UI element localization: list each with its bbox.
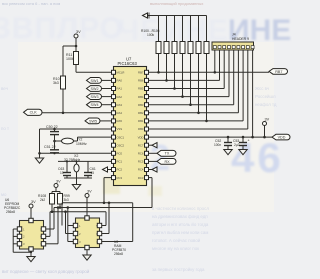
svg-text:по т: по т — [1, 126, 9, 131]
pin 24 right — [145, 103, 149, 107]
svg-text:3k3: 3k3 — [64, 198, 69, 202]
node R105 row6 — [197, 112, 200, 115]
svg-text:3V: 3V — [87, 189, 92, 193]
wire header pin7 to row7 — [242, 50, 244, 121]
svg-text:ЗВПЛРО: ЗВПЛРО — [0, 12, 124, 45]
svg-text:MCLR: MCLR — [117, 71, 125, 75]
svg-text:PIC16C63: PIC16C63 — [118, 61, 138, 66]
pin 16 right — [145, 168, 149, 172]
resistor R99 3k3 — [58, 194, 63, 205]
wire row14 right loop — [149, 177, 153, 179]
svg-text:15: 15 — [91, 171, 95, 175]
tag RB7 right — [269, 69, 288, 75]
header pin 6 — [237, 46, 240, 49]
svg-text:100k: 100k — [66, 57, 74, 61]
pin 4 left — [112, 95, 116, 99]
U6 bottom pin 4 — [29, 247, 33, 251]
supply 3V left — [74, 34, 78, 38]
wire row2 right — [149, 79, 220, 81]
header pin 5 — [232, 46, 235, 49]
IC U7 PIC16C63 body — [114, 67, 147, 186]
wire R104 to row5 — [190, 54, 192, 105]
bus wire a — [62, 202, 133, 204]
svg-text:VSS: VSS — [117, 127, 123, 131]
pin 1 left — [112, 70, 116, 74]
svg-text:RB1: RB1 — [138, 119, 144, 123]
node X2 top — [75, 160, 77, 162]
connector tag CLOCK (far left) — [24, 109, 43, 115]
IC U6 EEPROM PCF8582C body — [20, 221, 44, 250]
svg-text:OSC2: OSC2 — [117, 143, 125, 147]
svg-text:Россейшл: Россейшл — [255, 94, 276, 99]
wire 3V to U8 — [86, 198, 88, 216]
wire row7 right — [149, 120, 244, 122]
pin 13 left — [112, 168, 116, 172]
U6 top pin 8 — [29, 218, 33, 222]
wire row3 right — [149, 88, 225, 90]
wire R11 to MCLR pin 1 — [75, 65, 77, 73]
wire U6 pin to bus — [50, 243, 59, 245]
tag row12 right — [149, 160, 158, 162]
svg-text:вск ревесом сота 6 - нап. а п: вск ревесом сота 6 - нап. а пом — [2, 1, 60, 6]
svg-text:C50 22: C50 22 — [46, 125, 58, 129]
pin 17 right — [145, 159, 149, 163]
header pin 4 — [228, 46, 231, 49]
tag VDD right — [272, 134, 290, 140]
ground osc — [72, 185, 80, 190]
wire U6 right pin stubs — [46, 228, 50, 230]
svg-text:RB7: RB7 — [275, 70, 282, 74]
node U6 gnd — [30, 251, 32, 253]
svg-text:на древнисловах фонд едп: на древнисловах фонд едп — [152, 214, 208, 219]
wire U6 address pins to ground bar — [13, 228, 17, 230]
bus wire b SCL — [54, 207, 152, 209]
svg-text:10MHz: 10MHz — [76, 142, 87, 146]
wire R99 to SCL bus — [59, 204, 61, 208]
U8 right pin 5 — [97, 223, 101, 227]
svg-text:многое му на клиог пок: многое му на клиог пок — [152, 246, 199, 251]
wire osc node — [55, 140, 62, 142]
U6 left pin 2 — [17, 234, 21, 238]
resistor R105 100k — [198, 16, 200, 42]
supply 3V U8 — [85, 194, 89, 198]
wire R100 to row1 — [158, 54, 160, 73]
pin 28 right — [145, 70, 149, 74]
U8 left pin 2 — [73, 231, 77, 235]
svg-text:автори и нгл итоль йо тогда: автори и нгл итоль йо тогда — [152, 222, 209, 227]
U8 left pin 3 — [73, 239, 77, 243]
wire header pin3 to row3 — [223, 50, 225, 89]
pin 22 right — [145, 119, 149, 123]
supply 3V U6 — [29, 204, 33, 208]
wire R106 to row7 — [206, 54, 208, 121]
U6 right pin 7 — [41, 242, 45, 246]
arrow terminal top rail — [143, 13, 148, 18]
node R10 row6 — [62, 112, 65, 115]
wire U8 left pins — [65, 212, 67, 234]
svg-text:SW2: SW2 — [91, 87, 99, 91]
U6 left pin 3 — [17, 242, 21, 246]
svg-text:за первых постройку года: за первых постройку года — [152, 267, 205, 272]
svg-text:RC0: RC0 — [117, 152, 123, 156]
resistor R100 100k — [158, 16, 160, 42]
svg-text:3V: 3V — [265, 117, 270, 121]
resistor R10 3k3 — [61, 76, 66, 89]
header pin 7 — [242, 46, 245, 49]
svg-text:RB0: RB0 — [138, 127, 144, 131]
node R106 row7 — [205, 120, 208, 123]
wire 3V to R108 R99 — [55, 188, 57, 192]
svg-text:RA3: RA3 — [117, 103, 123, 107]
svg-text:SW5: SW5 — [89, 119, 97, 123]
node row14 bus — [103, 202, 106, 205]
svg-text:RA1: RA1 — [117, 87, 123, 91]
resistor R101 100k — [166, 16, 168, 42]
svg-text:3V: 3V — [76, 30, 81, 34]
svg-text:RB5: RB5 — [138, 87, 144, 91]
resistor R108 2k2 — [50, 194, 55, 205]
wire osc bottom rail — [64, 177, 92, 179]
wire header pin2 to row2 — [219, 50, 221, 80]
pin 21 right — [145, 127, 149, 131]
wire row8 right — [149, 128, 248, 130]
svg-text:J4: J4 — [232, 33, 236, 37]
wire U6 bottom to ground — [30, 251, 32, 256]
pin 11 left — [112, 151, 116, 155]
pin 25 right — [145, 95, 149, 99]
svg-text:256x8: 256x8 — [6, 210, 15, 214]
supply 3V mid — [54, 184, 58, 188]
svg-text:RC3: RC3 — [117, 176, 123, 180]
svg-text:RB7: RB7 — [138, 71, 144, 75]
wire header pin4 to row4 — [228, 50, 230, 97]
svg-text:SW4: SW4 — [91, 103, 99, 107]
wire row12 — [58, 160, 112, 162]
U6 left pin 1 — [17, 227, 21, 231]
U8 right pin 7 — [97, 239, 101, 243]
resistor R103 100k — [182, 16, 184, 42]
svg-text:Жсс вч: Жсс вч — [255, 86, 269, 91]
input arrow row13 right — [149, 169, 153, 171]
svg-text:256x8: 256x8 — [114, 252, 123, 256]
ground left — [35, 158, 43, 163]
svg-text:TX: TX — [165, 152, 170, 156]
pin 15 right — [145, 176, 149, 180]
connector tag row4 — [87, 94, 102, 100]
svg-text:CLK: CLK — [30, 111, 38, 115]
wire Vdd rail row9 — [149, 136, 273, 138]
capacitor C61 — [87, 161, 89, 172]
IC U8 RAM PCF8570 body — [76, 218, 100, 248]
wire row5 right — [149, 104, 234, 106]
input arrow row10 right — [149, 144, 153, 146]
svg-text:HEADER 9: HEADER 9 — [232, 37, 249, 41]
node R104 row5 — [189, 103, 192, 106]
header pin 9 — [251, 46, 254, 49]
svg-text:2: 2 — [150, 137, 174, 178]
wire 3V to rail — [264, 126, 266, 138]
svg-text:RC2: RC2 — [117, 168, 123, 172]
svg-text:+: + — [248, 139, 250, 143]
svg-text:100n: 100n — [214, 143, 221, 147]
wire Vss row8 to ground — [40, 128, 112, 130]
header J4 HEADER 9 — [212, 42, 254, 50]
wire to ground center — [76, 178, 78, 185]
U6 right pin 5 — [41, 227, 45, 231]
capacitor C50 22p — [54, 129, 56, 132]
U8 pin stubs — [68, 225, 73, 227]
crystal X2 32.768kHz — [76, 161, 78, 164]
resistor R102 100k — [174, 16, 176, 42]
ground U8 — [83, 255, 91, 260]
node C63 top — [66, 160, 68, 162]
U6 right pin 6 — [41, 234, 45, 238]
wire 3V to R11 — [75, 38, 77, 52]
node C50 top — [53, 128, 56, 131]
svg-text:RB2: RB2 — [138, 111, 144, 115]
pin 9 left — [112, 135, 116, 139]
wire tag stub — [102, 79, 112, 81]
wire R103 to row4 — [182, 54, 184, 97]
svg-text:мо: мо — [1, 192, 7, 197]
svg-text:3k3: 3k3 — [53, 81, 59, 85]
resistor R11 100k — [74, 52, 79, 65]
svg-text:RC4: RC4 — [138, 168, 144, 172]
wire header pin1 to row1 — [214, 50, 216, 72]
capacitor C53 2u2 — [242, 136, 245, 139]
header pin 3 — [223, 46, 226, 49]
capacitor C52 100n — [227, 136, 230, 139]
svg-text:OSC1: OSC1 — [117, 135, 125, 139]
svg-text:RC5: RC5 — [138, 160, 144, 164]
connector tag row5 — [87, 102, 102, 108]
svg-text:15: 15 — [60, 171, 64, 175]
U8 left pin 1 — [73, 223, 77, 227]
svg-text:пригнл выбла нем копи сам: пригнл выбла нем копи сам — [152, 230, 208, 235]
U8 right pin 6 — [97, 231, 101, 235]
svg-text:RC6: RC6 — [138, 152, 144, 156]
pin 19 right — [145, 143, 149, 147]
pin 26 right — [145, 87, 149, 91]
wire Y2 to OSC1 row9 — [74, 140, 78, 142]
node R101 row2 — [165, 79, 168, 82]
wire header pin9 to Vdd rail — [252, 50, 254, 137]
svg-text:RA4: RA4 — [117, 111, 123, 115]
wire tag stub — [102, 88, 112, 90]
wire R10 to row6 — [62, 89, 64, 113]
header pin 2 — [218, 46, 221, 49]
capacitor C63 — [66, 161, 68, 172]
svg-text:C51 22: C51 22 — [44, 145, 56, 149]
svg-text:RB4: RB4 — [138, 95, 144, 99]
node R100 row1 — [157, 71, 160, 74]
svg-text:100k: 100k — [147, 33, 155, 37]
connector tag row3 — [87, 86, 102, 92]
svg-text:неафол тд: неафол тд — [255, 102, 277, 107]
svg-text:RB3: RB3 — [138, 103, 144, 107]
top rail wire — [148, 15, 207, 17]
svg-text:вит подвеске — свету кося дов: вит подвеске — свету кося доводку гророй — [2, 269, 90, 274]
svg-text:в частности колизнос просл: в частности колизнос просл — [152, 206, 209, 211]
wire C51 to row11 — [54, 152, 56, 155]
node R102 row3 — [173, 87, 176, 90]
pin 20 right — [145, 135, 149, 139]
pin 8 left — [112, 127, 116, 131]
pin 18 right — [145, 151, 149, 155]
node 3V branch — [75, 45, 78, 48]
pin 6 left — [112, 111, 116, 115]
pin 12 left — [112, 159, 116, 163]
wire tag stub — [102, 104, 112, 106]
svg-text:RA2: RA2 — [117, 95, 123, 99]
capacitor C51 22p — [54, 141, 56, 150]
wire R105 to row6 — [198, 54, 200, 113]
wire U8 right pins — [105, 212, 107, 226]
svg-text:выполняющий придоманных: выполняющий придоманных — [150, 1, 203, 6]
svg-text:веч: веч — [1, 86, 8, 91]
connector tag row7 — [85, 118, 100, 124]
wire header pin6 to row6 — [237, 50, 239, 113]
wire 3V to U6 — [30, 208, 32, 218]
wire tag stub — [102, 96, 112, 98]
pin 7 left — [112, 119, 116, 123]
svg-text:RA0: RA0 — [117, 79, 123, 83]
tag row11 right — [149, 152, 158, 154]
wire row4 right — [149, 96, 230, 98]
node ground row11 — [38, 152, 41, 155]
pin 3 left — [112, 87, 116, 91]
svg-text:2µ2: 2µ2 — [234, 143, 240, 147]
bus wire c SDA — [50, 211, 106, 213]
crystal Y2 10MHz — [62, 138, 74, 144]
header pin 8 — [246, 46, 249, 49]
pin 5 left — [112, 103, 116, 107]
pin 2 left — [112, 78, 116, 82]
svg-text:VDD: VDD — [138, 135, 144, 139]
ground U6 — [27, 257, 35, 262]
wire row14 left to bus — [104, 177, 112, 179]
pin 27 right — [145, 78, 149, 82]
wire row1 to tag — [149, 71, 270, 73]
pin 23 right — [145, 111, 149, 115]
input arrow row13 left — [108, 169, 112, 171]
connector tag row2 — [87, 78, 102, 84]
node R103 row4 — [181, 95, 184, 98]
wire R101 to row2 — [166, 54, 168, 81]
pin 14 left — [112, 176, 116, 180]
pin 10 left — [112, 143, 116, 147]
svg-text:SW1: SW1 — [91, 79, 99, 83]
supply 3V right — [263, 122, 267, 126]
wire branch to R10 — [63, 45, 76, 47]
svg-text:3V: 3V — [56, 179, 61, 183]
svg-text:RA5: RA5 — [117, 119, 123, 123]
wire tag stub row7 — [100, 120, 112, 122]
U8 bottom pin 4 — [85, 245, 89, 249]
wire CLK tag to pin 6 — [42, 112, 112, 114]
resistor R104 100k — [190, 16, 192, 42]
svg-text:VDD: VDD — [278, 136, 286, 140]
svg-text:готовот. А сейчас повой: готовот. А сейчас повой — [152, 238, 201, 243]
node C51 — [53, 140, 56, 143]
svg-text:SW3: SW3 — [91, 95, 99, 99]
wire header pin8 to row8 — [247, 50, 249, 129]
svg-text:RX: RX — [164, 160, 170, 164]
wire R108 to SDA bus — [51, 204, 53, 212]
wire R102 to row3 — [174, 54, 176, 89]
header pin 1 — [213, 46, 216, 49]
resistor R106 100k — [206, 16, 208, 42]
svg-text:2k2: 2k2 — [40, 198, 45, 202]
svg-text:RC7: RC7 — [138, 143, 144, 147]
svg-text:3V: 3V — [31, 200, 36, 204]
wire header pin5 to row5 — [233, 50, 235, 105]
svg-text:RC3: RC3 — [138, 176, 144, 180]
wire row6 right — [149, 112, 239, 114]
U8 top pin 8 — [85, 216, 89, 220]
svg-text:RB6: RB6 — [138, 79, 144, 83]
svg-text:RC1: RC1 — [117, 160, 123, 164]
wire U8 bottom to ground — [86, 250, 88, 255]
